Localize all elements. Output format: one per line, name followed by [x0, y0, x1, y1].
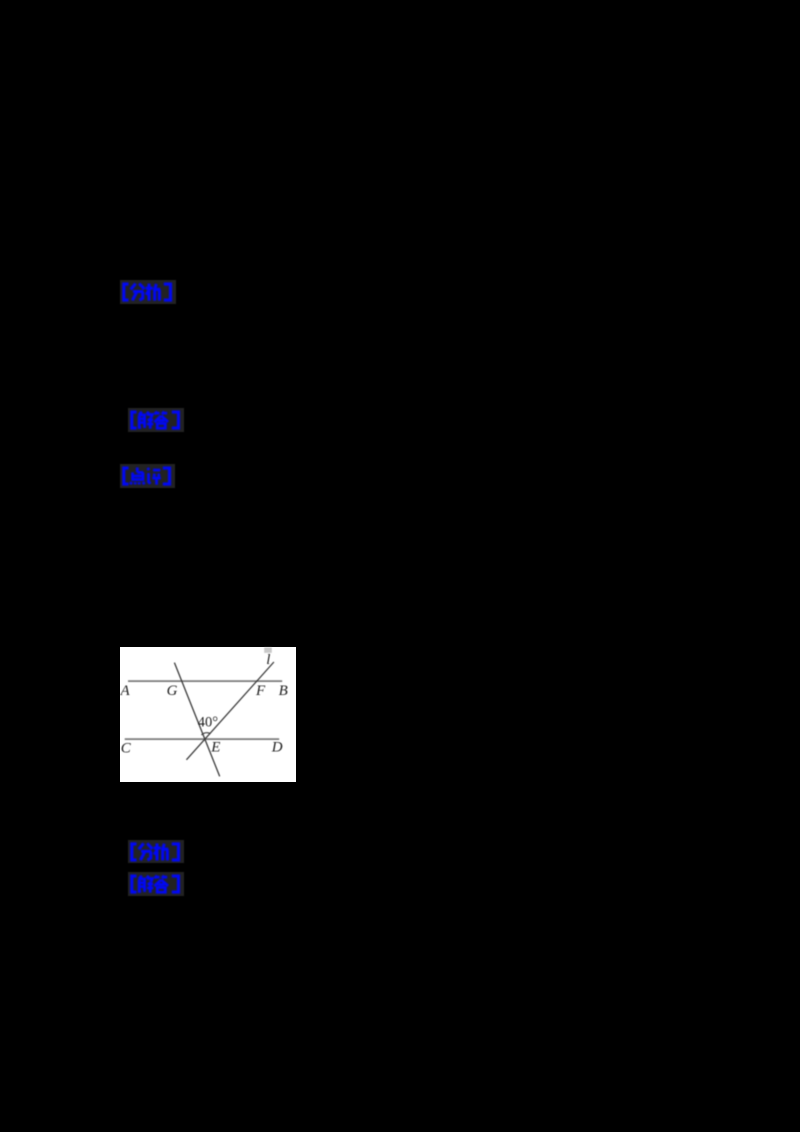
- line CD: [124, 738, 278, 740]
- svg-text:40°: 40°: [198, 714, 218, 730]
- labels: [119, 652, 287, 757]
- highlight label [fen-xi] #2: [128, 840, 184, 864]
- svg-text:F: F: [255, 682, 266, 698]
- highlight label [dian-ping]: [120, 464, 175, 488]
- shared glyph defs for blue CJK-style labels: [0, 0, 2, 2]
- geometry figure panel: [120, 647, 296, 783]
- svg-text:l: l: [266, 652, 270, 668]
- svg-text:A: A: [120, 683, 131, 699]
- angle arc at E: [201, 732, 210, 734]
- highlight label [jie-da] #1: [128, 408, 184, 432]
- svg-text:C: C: [120, 740, 131, 756]
- transversal through G and E: [174, 662, 219, 776]
- highlight label [jie-da] #2: [128, 872, 184, 896]
- gray handle square: [264, 647, 272, 652]
- svg-text:E: E: [210, 739, 220, 755]
- svg-text:G: G: [166, 683, 177, 699]
- svg-text:D: D: [271, 739, 283, 755]
- line AB: [128, 680, 282, 682]
- svg-text:B: B: [278, 683, 287, 699]
- highlight label [fen-xi] #1: [120, 280, 176, 304]
- transversal l through E and F: [186, 662, 273, 760]
